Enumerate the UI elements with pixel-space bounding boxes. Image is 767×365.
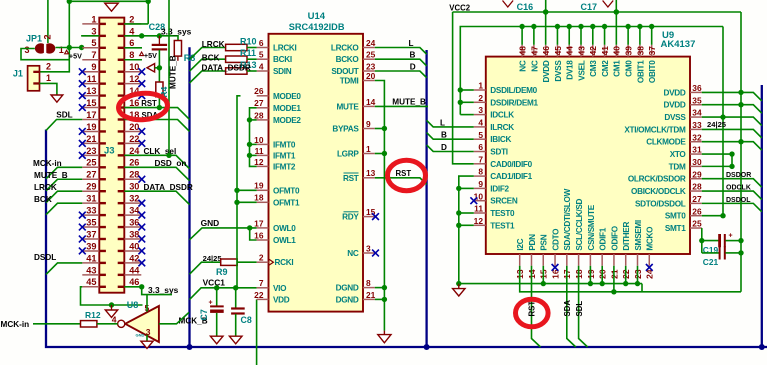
ground U14 DGND: [378, 335, 391, 343]
no-connect U9 MCKO: [646, 264, 653, 271]
svg-text:CDTO: CDTO: [551, 228, 560, 251]
svg-text:DITHER: DITHER: [622, 222, 631, 251]
svg-text:SRCEN: SRCEN: [490, 197, 518, 206]
svg-text:1: 1: [366, 144, 371, 154]
resistor R8: [174, 41, 181, 57]
connector J3: [99, 18, 124, 293]
svg-text:SDTI: SDTI: [490, 148, 507, 157]
svg-text:28: 28: [692, 182, 702, 192]
wire MUTE wire: [375, 105, 428, 107]
svg-text:IDCLK: IDCLK: [490, 111, 514, 120]
svg-text:BCK: BCK: [34, 195, 52, 204]
capacitor C16 riser: [545, 0, 547, 12]
svg-text:J1: J1: [13, 68, 23, 78]
wire J3 pin6: [124, 47, 142, 49]
svg-text:22: 22: [129, 134, 139, 144]
svg-text:+: +: [209, 300, 213, 307]
svg-text:43: 43: [576, 46, 586, 56]
wire J3 pin2 to top rail: [124, 23, 148, 25]
svg-text:OWL1: OWL1: [273, 236, 296, 245]
svg-text:VDD: VDD: [273, 295, 290, 304]
svg-text:13: 13: [366, 168, 376, 178]
svg-text:TEST0: TEST0: [490, 209, 515, 218]
wire ground rail (top of U9): [460, 27, 723, 115]
svg-text:36: 36: [129, 217, 139, 227]
svg-text:16: 16: [129, 98, 139, 108]
svg-text:L: L: [409, 39, 414, 48]
U8 pin3 ground wire: [146, 335, 148, 341]
U9 pins top: [518, 45, 658, 83]
wire SDL to bus: [579, 266, 588, 347]
svg-text:13: 13: [86, 86, 96, 96]
svg-text:XTO: XTO: [670, 150, 687, 159]
svg-text:LRCK: LRCK: [202, 40, 225, 49]
svg-text:GND: GND: [201, 218, 220, 228]
svg-text:9: 9: [478, 179, 483, 189]
svg-text:C21: C21: [703, 257, 719, 267]
svg-text:ODIF1: ODIF1: [599, 227, 608, 250]
svg-text:22: 22: [254, 290, 264, 300]
svg-text:D: D: [410, 63, 416, 72]
svg-text:R12: R12: [85, 310, 101, 320]
svg-text:RST: RST: [528, 301, 537, 317]
svg-text:RST: RST: [396, 169, 412, 178]
svg-text:C8: C8: [241, 315, 252, 325]
svg-text:PSN: PSN: [540, 234, 549, 250]
svg-text:SDL: SDL: [56, 111, 72, 120]
svg-text:27: 27: [86, 170, 96, 180]
svg-text:47: 47: [529, 46, 539, 56]
svg-text:30: 30: [129, 182, 139, 192]
wires U9 right rows to right bus: [702, 92, 762, 101]
svg-text:37: 37: [647, 46, 657, 56]
wire top rail to gnd: [69, 0, 148, 2]
svg-text:4: 4: [478, 118, 483, 128]
svg-text:ILRCK: ILRCK: [490, 123, 514, 132]
svg-text:2: 2: [43, 34, 53, 39]
wire SDOUT to bus: [375, 71, 427, 78]
svg-text:DVSS: DVSS: [664, 113, 686, 122]
svg-text:5: 5: [91, 38, 96, 48]
svg-text:1: 1: [59, 45, 64, 55]
svg-text:RST: RST: [343, 174, 359, 183]
annotation circle RST at U9 PDN: [516, 299, 549, 327]
svg-text:OBIT1: OBIT1: [636, 60, 645, 83]
svg-text:+5V: +5V: [69, 52, 82, 61]
wire BCKO to bus: [375, 59, 427, 66]
wire OFMT straps: [237, 189, 257, 191]
svg-text:C7: C7: [199, 309, 209, 320]
svg-text:DVSS: DVSS: [554, 60, 563, 82]
svg-text:1: 1: [478, 81, 483, 91]
svg-text:24: 24: [366, 38, 376, 48]
U14 pins left: [254, 38, 301, 305]
svg-text:9: 9: [91, 62, 96, 72]
svg-text:U14: U14: [308, 11, 326, 22]
svg-text:25: 25: [86, 158, 96, 168]
svg-text:GND: GND: [136, 333, 145, 338]
IC U14 SRC4192IDB: [269, 34, 364, 312]
wire VCC1 rail: [190, 288, 257, 300]
capacitor C19: [702, 240, 719, 242]
svg-text:C16: C16: [517, 2, 534, 12]
svg-text:42: 42: [588, 46, 598, 56]
svg-text:3: 3: [25, 45, 30, 55]
wire XTO-TDM strap: [702, 153, 732, 155]
svg-text:44: 44: [129, 265, 140, 275]
resistor R11: [226, 56, 247, 62]
svg-text:CSN/SMUTE: CSN/SMUTE: [587, 204, 596, 250]
svg-text:D: D: [441, 143, 447, 152]
svg-text:DV18: DV18: [566, 60, 575, 80]
svg-text:DATA_DSDR: DATA_DSDR: [202, 63, 251, 72]
wire GND to OWL0: [190, 228, 257, 240]
svg-text:MCK-in: MCK-in: [1, 320, 30, 329]
svg-text:+5V: +5V: [144, 51, 157, 60]
svg-text:33: 33: [692, 120, 702, 130]
U14 pins right: [331, 38, 376, 305]
svg-text:DSDIL/DEM0: DSDIL/DEM0: [490, 86, 537, 95]
capacitor C8: [235, 288, 237, 308]
wire U9 bottom ground bus 2: [520, 266, 741, 292]
bus right vertical: [761, 85, 763, 347]
annotation circle RST at J3 pin16: [118, 92, 169, 122]
svg-text:I2C: I2C: [516, 238, 525, 250]
svg-text:JP1: JP1: [26, 34, 42, 44]
junction bus junction: [424, 344, 430, 350]
U8 pin5 power wire: [146, 295, 148, 312]
junction bus junction: [759, 344, 765, 350]
svg-text:3: 3: [478, 105, 483, 115]
svg-text:46: 46: [541, 46, 551, 56]
svg-text:25: 25: [366, 50, 376, 60]
wire MCK-in to R12: [33, 323, 81, 325]
resistor R4: [158, 68, 160, 82]
svg-text:TDM: TDM: [669, 162, 686, 171]
capacitor C28: [152, 36, 167, 68]
svg-text:R10: R10: [240, 36, 257, 46]
svg-text:12: 12: [254, 157, 264, 167]
svg-text:17: 17: [254, 218, 264, 228]
svg-text:VCC2: VCC2: [449, 3, 470, 12]
svg-text:OBIT0: OBIT0: [648, 60, 657, 83]
svg-text:MCKO: MCKO: [646, 226, 655, 251]
ground U8 rail: [105, 310, 117, 317]
svg-text:5: 5: [478, 130, 483, 140]
svg-text:8: 8: [366, 278, 371, 288]
svg-text:LRCK: LRCK: [34, 183, 57, 192]
svg-text:39: 39: [624, 46, 634, 56]
no-connect U9 CDTO: [552, 264, 559, 271]
svg-text:2: 2: [259, 253, 264, 263]
svg-text:XTI/OMCLK/TDM: XTI/OMCLK/TDM: [624, 125, 686, 134]
svg-text:3.3_sys: 3.3_sys: [161, 27, 192, 37]
svg-text:23: 23: [86, 146, 96, 156]
svg-text:IFMT0: IFMT0: [273, 140, 296, 149]
svg-text:11: 11: [87, 74, 97, 84]
svg-text:5: 5: [259, 50, 264, 60]
svg-text:6: 6: [478, 142, 483, 152]
svg-text:OBICK/ODCLK: OBICK/ODCLK: [631, 187, 686, 196]
svg-text:33: 33: [86, 206, 96, 216]
wire VCC2 to CAD0 pin7: [453, 12, 474, 164]
svg-text:B: B: [441, 131, 447, 140]
svg-text:31: 31: [86, 194, 96, 204]
svg-text:30: 30: [692, 157, 702, 167]
ground C7: [210, 336, 223, 344]
svg-text:IFMT2: IFMT2: [273, 162, 296, 171]
svg-text:TEST1: TEST1: [490, 221, 515, 230]
U9 pins bottom: [515, 188, 655, 278]
svg-text:BCK: BCK: [202, 54, 220, 63]
wire PDN to bus: [532, 266, 541, 347]
svg-text:LRCKO: LRCKO: [331, 44, 360, 53]
svg-text:29: 29: [86, 182, 96, 192]
svg-text:DVDD: DVDD: [542, 60, 551, 82]
resistor R4: [156, 82, 163, 97]
no-connect U9 SRCEN: [470, 197, 477, 204]
svg-text:IBICK: IBICK: [490, 135, 511, 144]
resistor R9: [221, 259, 238, 265]
svg-text:SDTO/DSDOL: SDTO/DSDOL: [635, 199, 686, 208]
svg-text:28: 28: [129, 170, 139, 180]
annotation circle RST at U14: [388, 160, 426, 190]
svg-text:19: 19: [254, 181, 264, 191]
wire U14 VDD down: [256, 299, 258, 365]
svg-text:27: 27: [692, 194, 702, 204]
svg-text:SDIN: SDIN: [273, 67, 292, 76]
ground top: [105, 3, 118, 11]
wire J1 pin2 riser: [40, 48, 70, 72]
U9 pins1-3 strap dots: [458, 87, 463, 92]
wire J3 pin4 3.3_sys rail: [124, 36, 178, 41]
svg-text:CM2: CM2: [601, 60, 610, 77]
svg-text:43: 43: [86, 265, 96, 275]
svg-text:DGND: DGND: [336, 295, 359, 304]
connector J1: [28, 66, 40, 91]
port MUTE_B arrow: [147, 64, 155, 72]
svg-text:31: 31: [692, 145, 702, 155]
svg-text:44: 44: [565, 46, 575, 56]
power flag left of C16: [503, 1, 514, 8]
svg-text:SDOUT: SDOUT: [331, 67, 358, 76]
svg-text:R9: R9: [216, 267, 228, 277]
svg-text:46: 46: [129, 277, 139, 287]
svg-text:SDA/CDTI/SLOW: SDA/CDTI/SLOW: [563, 188, 572, 250]
wire MODE1-MODE2-IFMT strap: [250, 108, 257, 167]
ground C8: [229, 336, 242, 344]
svg-text:29: 29: [692, 169, 702, 179]
wire OWL1 link: [250, 228, 257, 240]
svg-text:U8: U8: [127, 300, 139, 310]
svg-text:CM0: CM0: [625, 60, 634, 77]
svg-text:24: 24: [129, 146, 140, 156]
wire JP1 pin3 loop: [21, 49, 69, 60]
wire bus to R9: [190, 262, 221, 274]
svg-text:23: 23: [366, 61, 376, 71]
capacitor C17 riser: [615, 0, 617, 12]
no-connect U14 NC: [372, 250, 379, 257]
svg-text:48: 48: [518, 46, 528, 56]
svg-text:4: 4: [129, 26, 135, 36]
svg-text:12: 12: [474, 216, 484, 226]
svg-text:OFMT0: OFMT0: [273, 186, 300, 195]
svg-text:PDN: PDN: [528, 234, 537, 251]
svg-text:IFMT1: IFMT1: [273, 151, 296, 160]
svg-text:CM1: CM1: [613, 60, 622, 77]
svg-text:SCL/CCLK/SD: SCL/CCLK/SD: [575, 198, 584, 250]
svg-text:12: 12: [129, 74, 139, 84]
bus J3-right vertical: [188, 47, 190, 347]
svg-text:26: 26: [692, 206, 702, 216]
svg-text:DGND: DGND: [336, 284, 359, 293]
svg-text:8: 8: [478, 167, 483, 177]
junction bus junction: [187, 344, 193, 350]
svg-text:17: 17: [86, 110, 96, 120]
svg-text:7: 7: [478, 154, 483, 164]
svg-text:CAD0/IDIF0: CAD0/IDIF0: [490, 160, 532, 169]
svg-text:11: 11: [255, 146, 264, 156]
svg-text:38: 38: [635, 46, 645, 56]
svg-text:45: 45: [553, 46, 563, 56]
svg-text:1: 1: [91, 14, 96, 24]
wire R12 to U8: [97, 323, 118, 325]
wire J3 pin45 to U8 rail: [81, 287, 143, 305]
svg-text:DSDIR/DEM1: DSDIR/DEM1: [490, 98, 538, 107]
svg-text:39: 39: [86, 241, 96, 251]
svg-text:25: 25: [692, 219, 702, 229]
svg-text:40: 40: [129, 241, 139, 251]
U9 top pin wires to rails: [519, 9, 654, 45]
svg-text:SMT1: SMT1: [665, 224, 686, 233]
wire SDA to bus: [567, 266, 576, 347]
wire LRCK to R10: [190, 48, 226, 60]
wire J3 pin8: [124, 59, 142, 61]
svg-text:+: +: [729, 233, 733, 240]
svg-text:MODE2: MODE2: [273, 116, 301, 125]
wire RST to bus: [375, 178, 427, 185]
U9 pins left: [474, 81, 539, 231]
svg-text:18: 18: [254, 193, 264, 203]
wire TDMI/BYPAS/LGRP/DGND vertical: [375, 81, 385, 331]
svg-text:VIO: VIO: [273, 284, 287, 293]
svg-text:BCKO: BCKO: [336, 55, 360, 64]
svg-text:C17: C17: [581, 2, 598, 12]
svg-text:R11: R11: [240, 48, 256, 58]
wire DATA_DSDR to R13: [190, 71, 226, 83]
wire CLK_sel from top: [168, 0, 170, 155]
svg-text:NC: NC: [347, 249, 359, 258]
svg-text:LGRP: LGRP: [337, 150, 359, 159]
wire R9 to RCKI: [237, 261, 257, 263]
svg-text:NC: NC: [519, 60, 528, 72]
wire JP1 pin2 to top edge: [47, 0, 49, 43]
svg-text:OLRCK/DSDOR: OLRCK/DSDOR: [628, 175, 686, 184]
svg-text:28: 28: [254, 110, 264, 120]
wire L to ILRCK: [427, 120, 474, 127]
svg-text:SMT0: SMT0: [665, 212, 686, 221]
svg-text:SDA: SDA: [563, 300, 572, 317]
svg-text:SMSEMI: SMSEMI: [634, 220, 643, 251]
wire VCC2 rail: [453, 11, 741, 13]
svg-text:10: 10: [129, 62, 139, 72]
svg-text:AK4137: AK4137: [661, 39, 696, 50]
svg-text:MODE1: MODE1: [273, 104, 301, 113]
svg-text:TDMI: TDMI: [340, 77, 359, 86]
wire DVDD/VCC2 right vertical: [740, 12, 742, 292]
svg-text:36: 36: [692, 83, 702, 93]
svg-text:2: 2: [478, 93, 483, 103]
resistor R12: [81, 321, 97, 327]
svg-text:35: 35: [692, 95, 702, 105]
svg-text:ODIFO: ODIFO: [610, 225, 619, 250]
svg-text:3: 3: [91, 26, 96, 36]
wire SMT0 to DVSS vertical: [702, 215, 723, 217]
svg-text:20: 20: [129, 122, 139, 132]
svg-text:45: 45: [86, 277, 96, 287]
U9 bottom pin drops: [542, 266, 544, 284]
svg-text:NC: NC: [530, 60, 539, 72]
svg-text:LRCKI: LRCKI: [273, 44, 297, 53]
op-amp/inverter U8: [125, 306, 159, 342]
wire B to IBICK: [427, 133, 474, 140]
bus left vertical: [46, 130, 767, 348]
svg-text:OWL0: OWL0: [273, 224, 296, 233]
svg-text:15: 15: [86, 98, 96, 108]
wire J1 pin1 to ground: [40, 83, 57, 95]
J3 pin numbers: [86, 14, 140, 287]
svg-text:35: 35: [86, 217, 96, 227]
svg-text:DVDD: DVDD: [664, 101, 686, 110]
wire BCK to R11: [190, 59, 226, 71]
capacitor C7: [216, 288, 218, 306]
jumper JP1: [35, 43, 55, 55]
wire +5V to J3 pin5: [56, 47, 82, 49]
svg-text:32: 32: [692, 132, 702, 142]
wire D to SDTI: [427, 145, 474, 152]
svg-text:34: 34: [129, 206, 140, 216]
J3 no-connect marks: [79, 68, 145, 266]
wire J3 pin3: [81, 35, 99, 37]
svg-text:21: 21: [366, 290, 376, 300]
svg-text:3: 3: [366, 243, 371, 253]
svg-text:RDY: RDY: [342, 213, 359, 222]
svg-text:B: B: [410, 51, 416, 60]
power +5V right: [140, 52, 144, 56]
svg-text:7: 7: [259, 278, 264, 288]
svg-text:10: 10: [254, 135, 264, 145]
wire SMT1 to C19: [701, 228, 703, 253]
svg-text:26: 26: [129, 158, 139, 168]
svg-text:9: 9: [366, 119, 371, 129]
svg-text:16: 16: [254, 230, 264, 240]
ground U8 pin3: [141, 341, 153, 348]
capacitor C21: [702, 252, 719, 254]
svg-text:32: 32: [129, 194, 139, 204]
svg-text:34: 34: [692, 108, 702, 118]
wire U9 bottom ground bus 1: [459, 283, 642, 285]
IC U9 AK4137: [486, 57, 690, 254]
wire U9 pins 8-12 ground strap: [459, 176, 474, 284]
power +5V left: [65, 50, 69, 54]
svg-text:CLKMODE: CLKMODE: [646, 138, 686, 147]
wire DVSS right vertical: [722, 27, 724, 216]
resistor R13: [226, 68, 247, 74]
svg-text:2: 2: [46, 62, 51, 72]
svg-text:MUTE: MUTE: [337, 102, 360, 111]
svg-text:8: 8: [129, 50, 134, 60]
svg-text:OFMT1: OFMT1: [273, 198, 300, 207]
